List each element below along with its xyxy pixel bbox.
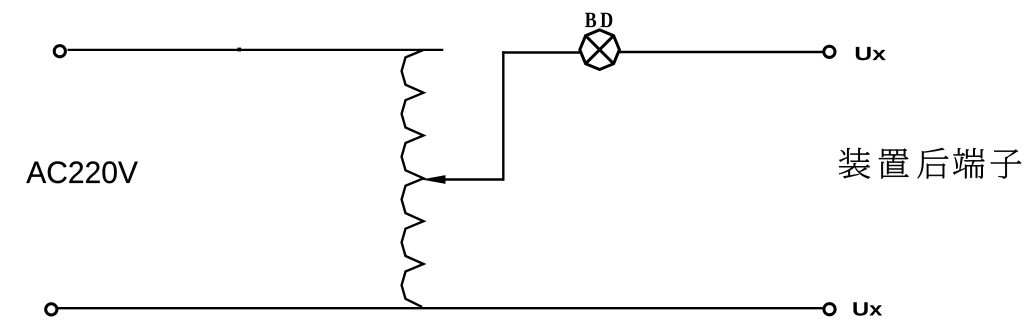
terminal X1 (AC220V top-left) <box>54 46 65 57</box>
wire tap horizontal (wiper to riser) <box>441 178 503 180</box>
wire bottom: terminal X3 to terminal X4 <box>58 307 823 309</box>
wire top-left: terminal X1 to winding top <box>68 49 444 51</box>
terminal X2 (Ux top-right) <box>824 46 835 57</box>
autotransformer winding T1 (zigzag) <box>402 50 424 307</box>
terminal X4 (Ux bottom-right) <box>824 304 835 315</box>
label text "子" (part of 装置后端子) <box>991 149 1022 178</box>
wire lamp to terminal X2 <box>619 51 823 53</box>
junction speck on top wire <box>238 48 242 52</box>
label text "后" (part of 装置后端子) <box>917 148 948 179</box>
label text "端" (part of 装置后端子) <box>953 148 984 178</box>
label BD <box>585 13 612 27</box>
label AC220V (source) <box>26 161 137 183</box>
label Ux (bottom) <box>853 302 882 315</box>
label Ux (top) <box>856 47 886 60</box>
label text "置" (part of 装置后端子) <box>879 148 909 178</box>
label 装置后端子 (device rear terminals) <box>839 148 1021 179</box>
terminal X3 (AC220V bottom-left) <box>46 304 57 315</box>
lamp BD (octagon circle with X) <box>580 30 620 70</box>
label text "装" (part of 装置后端子) <box>839 148 870 179</box>
wiper arrow of winding <box>422 175 446 184</box>
wire tap vertical riser <box>502 51 504 180</box>
wire riser to lamp BD <box>502 51 581 53</box>
